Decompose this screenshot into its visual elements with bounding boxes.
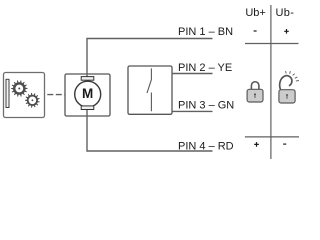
wire PIN2 — [172, 73, 212, 75]
brush bottom — [81, 106, 94, 110]
lock open body — [279, 90, 295, 103]
gear G1 — [11, 80, 27, 96]
svg-text:PIN 3 – GN: PIN 3 – GN — [178, 100, 234, 112]
lock open keyhole — [286, 94, 288, 96]
svg-text:Ub+: Ub+ — [245, 7, 266, 19]
wire PIN4 — [87, 110, 213, 152]
switch box — [128, 66, 172, 114]
lock open sparkles — [286, 71, 299, 81]
sign minus row3 — [283, 143, 286, 145]
wire PIN1 — [87, 39, 213, 78]
table hline bottom — [245, 136, 299, 138]
switch symbol — [147, 68, 151, 111]
sign plus row3 — [254, 142, 259, 147]
svg-text:PIN 4 – RD: PIN 4 – RD — [178, 141, 234, 153]
svg-text:PIN 1 – BN: PIN 1 – BN — [178, 26, 233, 38]
dashed shaft wire — [47, 94, 65, 96]
gear G2 — [25, 93, 40, 108]
sign plus row1 — [284, 29, 289, 34]
gearbox box — [4, 73, 45, 118]
lock open shackle — [280, 76, 292, 90]
brush top — [81, 77, 94, 81]
motor circle M — [75, 81, 101, 107]
table divider — [270, 5, 272, 159]
rack bar — [6, 79, 9, 107]
lock closed shackle — [251, 82, 259, 90]
svg-text:M: M — [82, 86, 93, 101]
svg-text:Ub-: Ub- — [276, 7, 295, 19]
sign minus row1 — [254, 30, 257, 32]
svg-text:PIN 2 – YE: PIN 2 – YE — [178, 62, 232, 74]
table hline top — [245, 43, 299, 45]
wire PIN3 — [172, 110, 212, 112]
lock closed body — [247, 89, 263, 102]
motor box — [65, 74, 110, 116]
lock closed keyhole — [254, 93, 256, 95]
